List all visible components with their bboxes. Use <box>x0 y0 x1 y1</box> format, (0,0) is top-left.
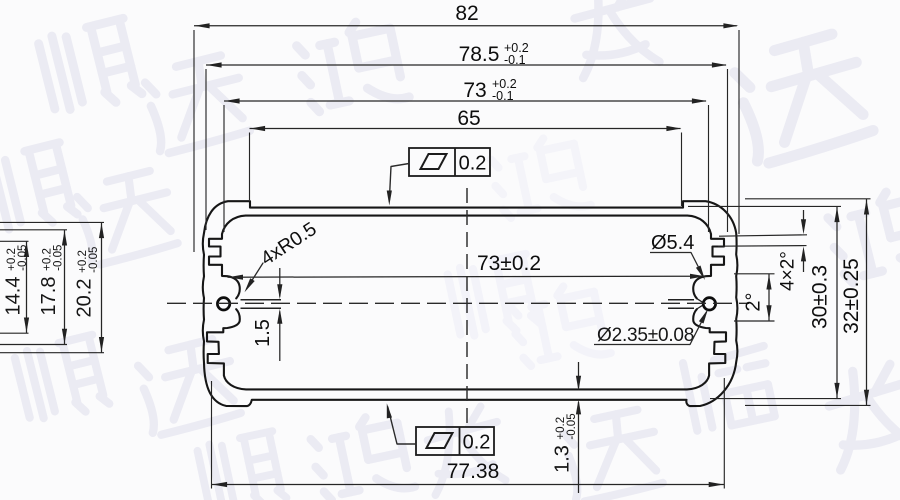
svg-text:78.5: 78.5 <box>459 43 500 66</box>
enclosure profile inner contour lower <box>207 309 726 389</box>
dimension 32±0.25 <box>745 198 871 200</box>
enclosure profile outer contour <box>203 201 738 406</box>
dimension 17.8 +0.2/-0.05 <box>0 229 67 231</box>
dimension 30±0.3 <box>688 205 841 207</box>
svg-text:73±0.2: 73±0.2 <box>477 252 541 275</box>
enclosure profile inner contour upper <box>209 216 724 299</box>
right claw taper lines <box>697 299 705 304</box>
dimension 78.5 +0.2/-0.1 <box>206 64 726 66</box>
svg-text:-0.1: -0.1 <box>492 89 514 103</box>
right screw hole circle <box>703 298 715 310</box>
svg-text:0.2: 0.2 <box>459 153 487 175</box>
dimension 1.3 +0.2/-0.05 <box>578 362 580 388</box>
svg-text:73: 73 <box>463 79 486 102</box>
svg-text:65: 65 <box>457 107 480 130</box>
dimension 20.2 +0.2/-0.05 <box>0 221 104 223</box>
flatness feature control frame bottom <box>416 427 494 455</box>
flatness feature control frame top <box>409 148 490 176</box>
svg-text:30±0.3: 30±0.3 <box>809 265 832 329</box>
dimension 2° <box>734 273 775 275</box>
svg-text:20.2: 20.2 <box>74 279 96 318</box>
svg-text:2°: 2° <box>743 292 765 311</box>
svg-text:Ø2.35±0.08: Ø2.35±0.08 <box>597 325 694 346</box>
vertical centerline <box>466 188 468 425</box>
svg-text:4×2°: 4×2° <box>778 251 799 291</box>
svg-text:Ø5.4: Ø5.4 <box>651 232 694 254</box>
dimension 82 <box>194 25 737 27</box>
svg-text:77.38: 77.38 <box>447 460 500 483</box>
svg-text:1.3: 1.3 <box>552 445 574 473</box>
dimension 14.4 +0.2/-0.05 <box>0 240 29 242</box>
dimension 65 <box>250 128 681 130</box>
left screw slot lines <box>241 299 282 301</box>
flatness frame bottom leader <box>388 407 416 444</box>
left screw hole circle <box>217 298 229 310</box>
svg-text:-0.1: -0.1 <box>504 53 526 67</box>
svg-text:14.4: 14.4 <box>3 277 25 316</box>
dimension 1.5 <box>279 268 281 297</box>
right screw slot lines <box>668 299 694 301</box>
svg-text:17.8: 17.8 <box>38 277 60 316</box>
svg-text:-0.05: -0.05 <box>566 413 578 439</box>
dimension 4×2° <box>719 235 807 236</box>
svg-text:-0.05: -0.05 <box>88 247 100 273</box>
dimension 77.38 <box>211 381 213 489</box>
dimension 73 +0.2/-0.1 <box>224 100 706 102</box>
svg-text:-0.05: -0.05 <box>17 245 29 271</box>
flatness frame top leader <box>389 164 409 202</box>
svg-text:32±0.25: 32±0.25 <box>840 258 863 334</box>
svg-text:0.2: 0.2 <box>463 432 491 454</box>
horizontal centerline <box>167 302 749 304</box>
watermark background characters <box>38 18 143 117</box>
svg-text:1.5: 1.5 <box>252 319 274 347</box>
svg-text:-0.05: -0.05 <box>53 245 65 271</box>
dimension 73±0.2 hole centers <box>228 276 706 277</box>
svg-text:82: 82 <box>455 2 478 25</box>
